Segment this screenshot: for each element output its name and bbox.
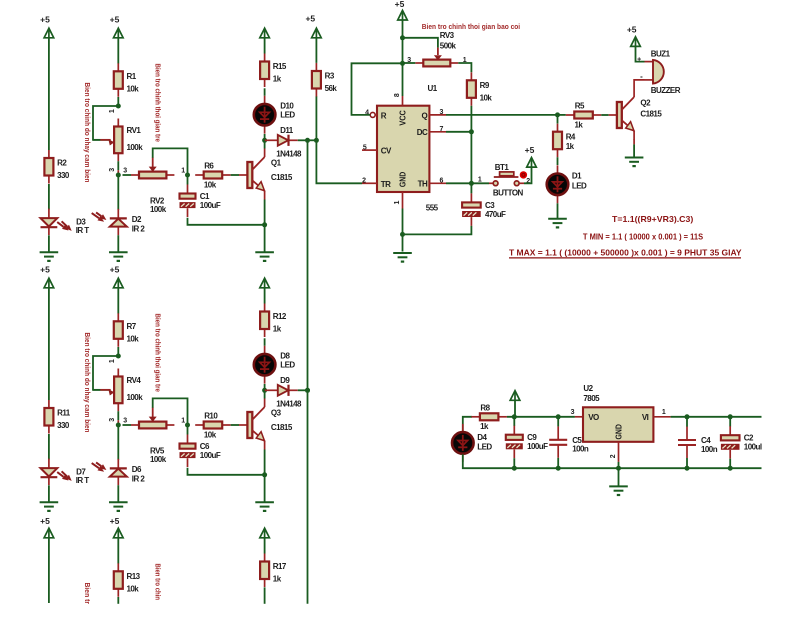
svg-text:56k: 56k	[325, 84, 338, 93]
svg-text:1: 1	[478, 177, 482, 184]
wire DC node to TH node	[470, 132, 472, 184]
svg-text:Bien tro chin: Bien tro chin	[154, 564, 161, 601]
svg-text:10k: 10k	[127, 585, 140, 594]
node C4 bottom	[685, 466, 690, 471]
LED D8	[254, 346, 296, 384]
pin 7 DC	[429, 126, 446, 133]
wire reset to vcc	[352, 63, 403, 115]
svg-text:1: 1	[109, 109, 116, 113]
node R1/RV1 junction	[116, 104, 121, 109]
svg-text:10k: 10k	[480, 94, 493, 103]
svg-text:C1815: C1815	[640, 110, 662, 119]
node Q1 collector	[262, 138, 267, 143]
wire C2 top lead	[729, 417, 731, 427]
wire	[48, 184, 50, 210]
svg-text:R15: R15	[273, 62, 287, 71]
wire U2 gnd	[618, 462, 620, 468]
annotation formula T MAX	[509, 247, 742, 258]
wire RV1 wiper loop	[93, 106, 118, 140]
svg-text:3: 3	[109, 418, 116, 422]
svg-text:Bien tro chinh thoi gian bao c: Bien tro chinh thoi gian bao coi	[422, 24, 520, 31]
svg-text:10k: 10k	[204, 430, 217, 439]
+5 power symbol	[40, 264, 54, 288]
wire top rail left	[463, 417, 472, 432]
wire	[264, 538, 266, 554]
+5 power symbol	[40, 14, 54, 38]
wire Q node to R5	[558, 114, 566, 116]
power symbol	[260, 528, 270, 538]
+5 power symbol	[110, 14, 123, 38]
wire	[117, 161, 119, 170]
svg-text:R5: R5	[575, 102, 585, 111]
svg-text:U2: U2	[583, 384, 593, 393]
wire TH node to C3	[470, 183, 472, 193]
svg-text:Q1: Q1	[271, 158, 282, 167]
svg-text:IR T: IR T	[76, 476, 90, 485]
svg-text:1: 1	[662, 409, 666, 416]
svg-text:CV: CV	[381, 147, 392, 156]
resistor R13	[114, 563, 141, 597]
svg-text:BUZZER: BUZZER	[651, 86, 681, 95]
wire	[315, 38, 317, 63]
wire	[117, 175, 119, 210]
wire gnd stub	[618, 468, 620, 486]
svg-text:10k: 10k	[127, 335, 140, 344]
wire D1 to ground	[557, 203, 559, 218]
ground	[40, 252, 59, 261]
pin 3 Q	[429, 109, 446, 116]
wire C4 leads	[686, 417, 688, 427]
svg-text:+5: +5	[110, 516, 120, 526]
wire	[686, 458, 688, 468]
wire gnd pin down	[402, 209, 404, 235]
svg-text:+5: +5	[40, 516, 50, 526]
wire	[264, 225, 266, 252]
resistor R11	[44, 400, 70, 434]
wire C9 bottom	[513, 458, 515, 468]
IR transmitter LED D7	[41, 459, 90, 486]
svg-text:IR 2: IR 2	[132, 475, 146, 484]
node vcc/rv3 wiper	[400, 35, 405, 40]
wire to TR pin	[316, 140, 362, 183]
svg-text:7: 7	[440, 126, 444, 133]
node C9 top	[512, 414, 517, 419]
wire bottom rail	[514, 467, 761, 469]
LED D10	[254, 96, 296, 134]
potentiometer RV1	[93, 119, 143, 162]
svg-text:TH: TH	[418, 180, 428, 189]
svg-text:100k: 100k	[127, 143, 144, 152]
wire	[264, 450, 266, 475]
resistor R15	[260, 54, 287, 88]
resistor R12	[260, 304, 287, 338]
svg-text:D4: D4	[477, 433, 487, 442]
node trigger line	[305, 388, 310, 393]
+5 power symbol	[260, 28, 270, 38]
ground	[255, 502, 274, 511]
ground	[255, 252, 274, 261]
power symbol	[510, 391, 520, 401]
svg-text:C1: C1	[200, 192, 210, 201]
pin 1 GND	[394, 192, 402, 209]
svg-text:Q3: Q3	[271, 408, 282, 417]
svg-text:3: 3	[109, 168, 116, 172]
svg-text:D1: D1	[572, 172, 582, 181]
wire	[231, 174, 239, 176]
svg-text:500k: 500k	[440, 41, 457, 50]
resistor R3	[312, 63, 337, 97]
wire	[117, 485, 119, 501]
wire	[264, 587, 266, 604]
wire vcc column	[402, 20, 404, 96]
svg-text:100n: 100n	[572, 445, 589, 454]
resistor R4	[553, 124, 576, 158]
svg-text:Bien tro chinh thoi gian tre: Bien tro chinh thoi gian tre	[154, 64, 161, 142]
pin 6 TH	[429, 178, 446, 185]
node 1 junction	[185, 173, 190, 178]
wire rv3 wiper	[403, 38, 438, 48]
node Q3 collector	[262, 388, 267, 393]
svg-text:100uF: 100uF	[200, 451, 221, 460]
wire R4 to D1	[557, 157, 559, 165]
wire R8 to U2	[507, 416, 575, 418]
svg-text:3: 3	[440, 109, 444, 116]
svg-text:8: 8	[394, 93, 401, 97]
svg-text:C3: C3	[485, 201, 495, 210]
svg-text:R12: R12	[273, 312, 287, 321]
svg-text:1k: 1k	[273, 75, 282, 84]
+5 power symbol	[260, 278, 270, 288]
node trigger/D9	[305, 388, 310, 393]
svg-text:R8: R8	[480, 404, 490, 413]
node C2 bottom	[728, 466, 733, 471]
svg-text:R7: R7	[127, 322, 137, 331]
svg-text:LED: LED	[280, 111, 295, 120]
diode D11	[265, 126, 302, 159]
wire	[231, 424, 239, 426]
svg-text:LED: LED	[280, 361, 295, 370]
svg-text:VO: VO	[588, 413, 599, 422]
svg-text:BUZ1: BUZ1	[651, 49, 671, 58]
wire	[48, 485, 50, 501]
resistor R10	[195, 412, 231, 440]
wire	[557, 458, 559, 468]
+5 power symbol	[305, 13, 321, 38]
svg-text:Bien tro chinh thoi gian tre: Bien tro chinh thoi gian tre	[154, 314, 161, 392]
wire	[264, 38, 266, 54]
svg-text:IR T: IR T	[76, 226, 90, 235]
wire	[48, 538, 50, 603]
svg-text:10k: 10k	[127, 85, 140, 94]
svg-text:100k: 100k	[127, 393, 144, 402]
node 3 junction	[116, 173, 121, 178]
wire Q2 collector to buzzer	[634, 80, 644, 97]
capacitor C4	[678, 427, 718, 459]
wire	[117, 97, 119, 106]
wire to emitter	[188, 218, 265, 225]
svg-text:3: 3	[571, 409, 575, 416]
capacitor C9	[506, 426, 548, 459]
resistor R1	[114, 63, 139, 97]
wire	[48, 434, 50, 460]
wire	[264, 384, 266, 399]
node C4 top	[685, 414, 690, 419]
emitter/cap junction	[262, 222, 267, 227]
wire	[402, 234, 404, 251]
pin 4 R	[365, 109, 377, 117]
svg-text:C9: C9	[527, 433, 537, 442]
wire	[117, 411, 119, 420]
IR receiver diode D6	[92, 459, 146, 485]
svg-text:R: R	[381, 112, 387, 121]
wire	[633, 144, 635, 156]
capacitor C3	[462, 193, 506, 226]
transistor Q1	[247, 157, 292, 200]
potentiometer RV4	[93, 369, 143, 412]
svg-text:330: 330	[57, 421, 70, 430]
node vcc/rv3/reset	[400, 61, 405, 66]
wire Q output	[446, 114, 558, 116]
svg-text:10k: 10k	[204, 180, 217, 189]
svg-text:+5: +5	[40, 264, 50, 274]
op-amp U1 555 timer	[377, 106, 429, 192]
pin 2 TR	[362, 178, 377, 185]
svg-text:R17: R17	[273, 562, 287, 571]
wire	[117, 597, 119, 604]
push button BT1	[478, 163, 530, 198]
svg-text:100uF: 100uF	[200, 201, 221, 210]
regulator U2 7805	[571, 407, 671, 462]
pin 8 VCC	[394, 93, 402, 106]
capacitor C2	[721, 426, 762, 459]
svg-text:R11: R11	[57, 409, 71, 418]
svg-text:1k: 1k	[566, 142, 575, 151]
svg-text:1: 1	[394, 201, 401, 205]
ground	[625, 158, 644, 167]
capacitor C5	[549, 426, 589, 458]
wire	[298, 389, 308, 391]
svg-text:1: 1	[181, 417, 185, 424]
IR receiver diode D2	[92, 209, 146, 235]
wire C2 bottom lead	[729, 459, 731, 469]
ground	[548, 219, 567, 228]
svg-text:100k: 100k	[150, 455, 167, 464]
wire to emitter	[188, 468, 265, 475]
svg-text:LED: LED	[572, 181, 587, 190]
wire Q node down	[557, 115, 559, 124]
svg-text:U1: U1	[428, 84, 438, 93]
svg-text:R3: R3	[325, 72, 335, 81]
wire	[308, 139, 317, 141]
svg-text:+5: +5	[110, 14, 120, 24]
resistor R17	[260, 554, 287, 588]
svg-text:BT1: BT1	[495, 163, 510, 172]
svg-text:GND: GND	[614, 424, 623, 440]
svg-text:5: 5	[363, 145, 367, 152]
svg-text:R2: R2	[57, 159, 67, 168]
svg-text:GND: GND	[399, 172, 408, 188]
svg-text:D9: D9	[280, 376, 290, 385]
svg-text:1N4148: 1N4148	[276, 400, 302, 409]
svg-text:D2: D2	[132, 215, 142, 224]
transistor Q3	[247, 407, 292, 450]
svg-text:555: 555	[426, 204, 439, 213]
LED D4	[452, 424, 492, 462]
resistor R9	[467, 72, 492, 106]
svg-text:Bien tro chinh do nhay cam bie: Bien tro chinh do nhay cam bien	[83, 83, 90, 183]
svg-text:R10: R10	[204, 412, 218, 421]
diode D9	[265, 376, 302, 409]
node C5 top	[556, 414, 561, 419]
node R3/trigger	[314, 138, 319, 143]
wire	[48, 288, 50, 400]
svg-text:C1815: C1815	[271, 173, 293, 182]
wire	[187, 425, 189, 435]
resistor R2	[44, 150, 69, 184]
svg-text:+5: +5	[627, 24, 637, 34]
+5 power symbol	[627, 24, 640, 46]
buzzer BUZ1	[637, 49, 681, 95]
node trigger line	[305, 138, 310, 143]
wire	[117, 538, 119, 564]
wire	[117, 425, 119, 460]
svg-text:RV4: RV4	[127, 376, 142, 385]
capacitor C6	[180, 435, 221, 468]
wire	[117, 38, 119, 64]
svg-text:LED: LED	[477, 443, 492, 452]
svg-text:VI: VI	[642, 413, 649, 422]
wire	[123, 174, 132, 176]
wire trigger line vertical	[307, 140, 309, 604]
wire button to +5	[524, 167, 532, 183]
+5 power symbol	[110, 516, 123, 538]
wire TH line	[446, 182, 471, 184]
svg-text:6: 6	[440, 178, 444, 185]
svg-text:+5: +5	[110, 264, 120, 274]
svg-text:100uF: 100uF	[527, 442, 548, 451]
wire RV2 wiper loop	[153, 148, 188, 175]
svg-text:D11: D11	[280, 126, 294, 135]
IR transmitter LED D3	[41, 209, 90, 236]
svg-text:R4: R4	[566, 132, 576, 141]
wire top rail right	[671, 416, 762, 418]
svg-text:D6: D6	[132, 465, 142, 474]
wire	[264, 134, 266, 149]
svg-text:C2: C2	[744, 434, 754, 443]
svg-text:D10: D10	[280, 101, 294, 110]
svg-text:7805: 7805	[583, 394, 600, 403]
svg-text:1: 1	[181, 167, 185, 174]
wire C3 to gnd rail	[403, 226, 472, 235]
svg-text:1: 1	[109, 359, 116, 363]
resistor R5	[566, 102, 602, 130]
svg-text:+5: +5	[305, 13, 315, 23]
svg-text:BUTTON: BUTTON	[493, 189, 524, 198]
wire R9 to DC node	[470, 106, 472, 132]
wire	[117, 347, 119, 356]
svg-text:330: 330	[57, 171, 70, 180]
svg-text:2: 2	[362, 178, 366, 185]
+5 power symbol	[110, 264, 123, 288]
potentiometer RV5	[131, 407, 174, 463]
svg-text:R6: R6	[204, 162, 214, 171]
potentiometer RV2	[131, 157, 174, 213]
resistor R8	[471, 404, 507, 432]
svg-text:470uF: 470uF	[485, 210, 506, 219]
node U2 gnd	[616, 466, 621, 471]
+5 power symbol	[40, 516, 54, 538]
wire	[123, 424, 132, 426]
svg-text:3: 3	[123, 167, 127, 174]
wire power arrow to rail	[514, 400, 516, 417]
svg-text:Bien tro chinh do nhay cam bie: Bien tro chinh do nhay cam bien	[83, 333, 90, 433]
wire	[264, 200, 266, 225]
node 3 junction	[116, 423, 121, 428]
svg-text:Q2: Q2	[640, 98, 651, 107]
svg-text:+5: +5	[525, 145, 535, 155]
svg-text:1k: 1k	[480, 422, 489, 431]
pin 5 CV	[362, 145, 377, 152]
wire Q2 emitter to ground	[633, 139, 635, 144]
ground	[393, 253, 412, 262]
wire buzzer + to +5	[636, 46, 645, 61]
svg-text:R1: R1	[127, 72, 137, 81]
svg-text:VCC: VCC	[399, 110, 408, 126]
svg-text:RV1: RV1	[127, 126, 142, 135]
wire	[264, 88, 266, 95]
svg-text:1k: 1k	[273, 575, 282, 584]
svg-text:+5: +5	[40, 14, 50, 24]
resistor R7	[114, 313, 139, 347]
node C5 bottom	[556, 466, 561, 471]
node Q output	[555, 112, 560, 117]
svg-text:IR 2: IR 2	[132, 225, 146, 234]
wire D4 to bottom rail	[463, 454, 515, 468]
emitter/cap junction	[262, 472, 267, 477]
svg-text:T MAX = 1.1 ( (10000 + 500000: T MAX = 1.1 ( (10000 + 500000 )x 0.001 )…	[509, 247, 742, 257]
ground	[609, 486, 628, 495]
svg-text:D8: D8	[280, 351, 290, 360]
svg-text:Bien tr: Bien tr	[83, 583, 90, 605]
node DC/R9	[469, 129, 474, 134]
svg-text:Q: Q	[422, 112, 428, 121]
svg-text:1k: 1k	[273, 325, 282, 334]
+5 power symbol	[525, 145, 537, 167]
svg-text:RV3: RV3	[440, 31, 455, 40]
svg-text:100k: 100k	[150, 205, 167, 214]
wire C9 top	[513, 417, 515, 426]
wire	[264, 288, 266, 304]
resistor R6	[195, 162, 231, 190]
svg-text:100ul: 100ul	[744, 443, 762, 452]
wire	[48, 38, 50, 150]
node R7/RV4 junction	[116, 354, 121, 359]
wire C5 leads	[557, 417, 559, 427]
wire RV5 wiper loop	[153, 398, 188, 425]
svg-text:3: 3	[123, 417, 127, 424]
ground	[109, 252, 128, 261]
wire	[264, 475, 266, 502]
node 1 junction	[185, 423, 190, 428]
wire	[117, 235, 119, 251]
svg-text:R9: R9	[480, 81, 490, 90]
svg-text:DC: DC	[417, 128, 428, 137]
wire R5 to Q2 base	[601, 114, 608, 116]
LED D1	[547, 165, 587, 203]
svg-text:T MIN = 1.1 ( 10000 x 0.001 ): T MIN = 1.1 ( 10000 x 0.001 ) = 11S	[583, 232, 704, 242]
svg-text:TR: TR	[381, 180, 391, 189]
ground	[109, 502, 128, 511]
